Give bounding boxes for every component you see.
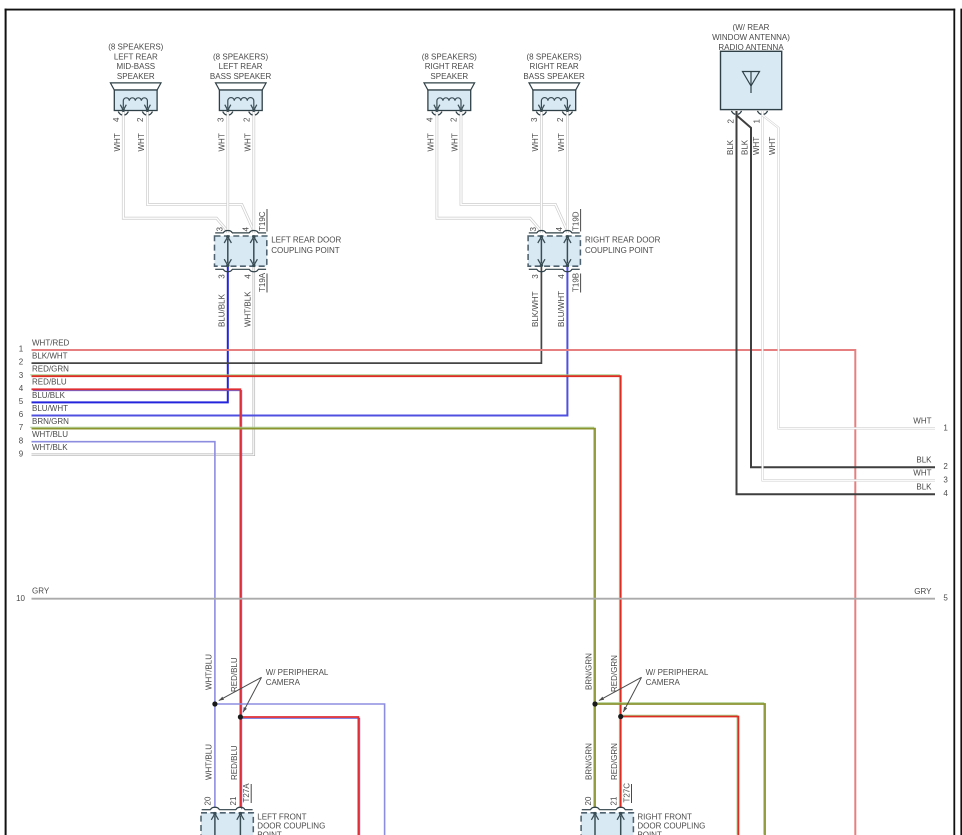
svg-text:WHT: WHT [913,417,931,426]
svg-text:WHT/RED: WHT/RED [32,338,70,347]
svg-text:2: 2 [136,117,145,122]
svg-text:WHT: WHT [752,137,761,155]
svg-text:RIGHT REAR: RIGHT REAR [425,62,474,71]
svg-text:(8 SPEAKERS): (8 SPEAKERS) [108,43,163,52]
svg-text:4: 4 [244,274,253,279]
svg-text:8: 8 [19,436,24,445]
svg-text:4: 4 [557,274,566,279]
svg-text:1: 1 [19,345,24,354]
svg-text:WHT/BLU: WHT/BLU [32,430,68,439]
svg-text:T27C: T27C [622,783,631,803]
svg-text:RIGHT FRONT: RIGHT FRONT [637,812,692,821]
svg-text:T19A: T19A [258,272,267,292]
svg-text:BASS SPEAKER: BASS SPEAKER [523,72,585,81]
svg-text:BLU/BLK: BLU/BLK [32,391,66,400]
svg-text:21: 21 [610,796,619,805]
svg-text:RED/GRN: RED/GRN [610,743,619,780]
svg-text:GRY: GRY [32,586,50,595]
svg-text:WHT: WHT [137,133,146,151]
svg-text:T19D: T19D [571,211,580,231]
svg-text:SPEAKER: SPEAKER [117,72,155,81]
svg-text:BLU/BLK: BLU/BLK [217,293,226,327]
svg-text:WHT: WHT [557,133,566,151]
svg-text:4: 4 [112,117,121,122]
svg-text:4: 4 [19,384,24,393]
svg-text:T27A: T27A [242,783,251,803]
svg-text:RADIO ANTENNA: RADIO ANTENNA [718,43,784,52]
svg-text:3: 3 [216,227,225,232]
svg-text:BLK: BLK [916,455,932,464]
svg-text:(8 SPEAKERS): (8 SPEAKERS) [422,52,477,61]
svg-text:COUPLING POINT: COUPLING POINT [585,246,654,255]
svg-text:(8 SPEAKERS): (8 SPEAKERS) [527,52,582,61]
svg-text:BLK/WHT: BLK/WHT [531,291,540,327]
svg-text:COUPLING POINT: COUPLING POINT [271,246,340,255]
svg-text:20: 20 [584,796,593,805]
svg-text:POINT: POINT [637,831,662,835]
svg-text:RED/GRN: RED/GRN [32,365,69,374]
svg-text:3: 3 [19,371,24,380]
svg-text:BLK: BLK [741,139,750,155]
svg-text:7: 7 [19,423,24,432]
svg-text:WHT/BLK: WHT/BLK [32,443,68,452]
svg-text:9: 9 [19,449,24,458]
svg-text:BLK: BLK [916,482,932,491]
svg-text:BLU/WHT: BLU/WHT [557,291,566,327]
svg-text:WHT: WHT [243,133,252,151]
svg-text:WHT/BLU: WHT/BLU [204,654,213,690]
svg-text:10: 10 [16,594,25,603]
svg-text:WHT: WHT [217,133,226,151]
svg-text:4: 4 [426,117,435,122]
svg-text:RED/GRN: RED/GRN [610,655,619,692]
svg-text:20: 20 [204,796,213,805]
svg-text:5: 5 [943,594,948,603]
svg-text:3: 3 [529,227,538,232]
svg-text:LEFT REAR: LEFT REAR [114,52,158,61]
svg-text:4: 4 [555,227,564,232]
svg-text:LEFT REAR: LEFT REAR [219,62,263,71]
svg-text:W/ PERIPHERAL: W/ PERIPHERAL [646,668,709,677]
svg-text:CAMERA: CAMERA [266,678,301,687]
svg-text:1: 1 [753,119,762,124]
svg-text:(8 SPEAKERS): (8 SPEAKERS) [213,52,268,61]
svg-text:WINDOW ANTENNA): WINDOW ANTENNA) [712,33,790,42]
svg-text:2: 2 [19,358,24,367]
svg-text:SPEAKER: SPEAKER [430,72,468,81]
svg-text:LEFT REAR DOOR: LEFT REAR DOOR [271,236,341,245]
svg-text:WHT: WHT [426,133,435,151]
svg-text:5: 5 [19,397,24,406]
svg-text:CAMERA: CAMERA [646,678,681,687]
svg-text:BLK: BLK [726,139,735,155]
svg-text:BRN/GRN: BRN/GRN [585,743,594,780]
svg-text:21: 21 [229,796,238,805]
svg-text:RED/BLU: RED/BLU [230,745,239,780]
svg-text:WHT: WHT [531,133,540,151]
svg-text:BLK/WHT: BLK/WHT [32,352,68,361]
svg-text:T19B: T19B [571,273,580,292]
svg-text:2: 2 [450,117,459,122]
svg-text:RIGHT REAR DOOR: RIGHT REAR DOOR [585,236,661,245]
svg-text:(W/ REAR: (W/ REAR [733,23,770,32]
svg-text:WHT/BLK: WHT/BLK [243,291,252,327]
svg-text:WHT: WHT [768,137,777,155]
svg-text:WHT/BLU: WHT/BLU [204,744,213,780]
svg-text:3: 3 [943,475,948,484]
svg-text:W/ PERIPHERAL: W/ PERIPHERAL [266,668,329,677]
svg-text:4: 4 [943,489,948,498]
svg-text:T19C: T19C [258,211,267,231]
svg-text:WHT: WHT [913,469,931,478]
svg-text:RIGHT REAR: RIGHT REAR [529,62,578,71]
svg-text:DOOR COUPLING: DOOR COUPLING [637,821,705,830]
svg-text:3: 3 [218,274,227,279]
svg-text:3: 3 [531,274,540,279]
svg-text:BRN/GRN: BRN/GRN [585,653,594,690]
svg-text:RED/BLU: RED/BLU [32,378,67,387]
svg-text:2: 2 [556,117,565,122]
svg-text:GRY: GRY [914,587,932,596]
svg-text:2: 2 [943,462,948,471]
svg-text:DOOR COUPLING: DOOR COUPLING [257,821,325,830]
svg-text:BRN/GRN: BRN/GRN [32,417,69,426]
svg-text:3: 3 [530,117,539,122]
svg-text:BASS SPEAKER: BASS SPEAKER [210,72,272,81]
svg-text:4: 4 [242,227,251,232]
svg-text:2: 2 [727,119,736,124]
svg-text:2: 2 [243,117,252,122]
svg-text:6: 6 [19,410,24,419]
svg-text:3: 3 [217,117,226,122]
svg-text:LEFT FRONT: LEFT FRONT [257,812,306,821]
svg-text:1: 1 [943,423,948,432]
svg-text:RED/BLU: RED/BLU [230,657,239,692]
svg-text:POINT: POINT [257,831,282,835]
svg-text:MID-BASS: MID-BASS [116,62,155,71]
svg-text:WHT: WHT [451,133,460,151]
svg-text:BLU/WHT: BLU/WHT [32,404,68,413]
svg-text:WHT: WHT [113,133,122,151]
